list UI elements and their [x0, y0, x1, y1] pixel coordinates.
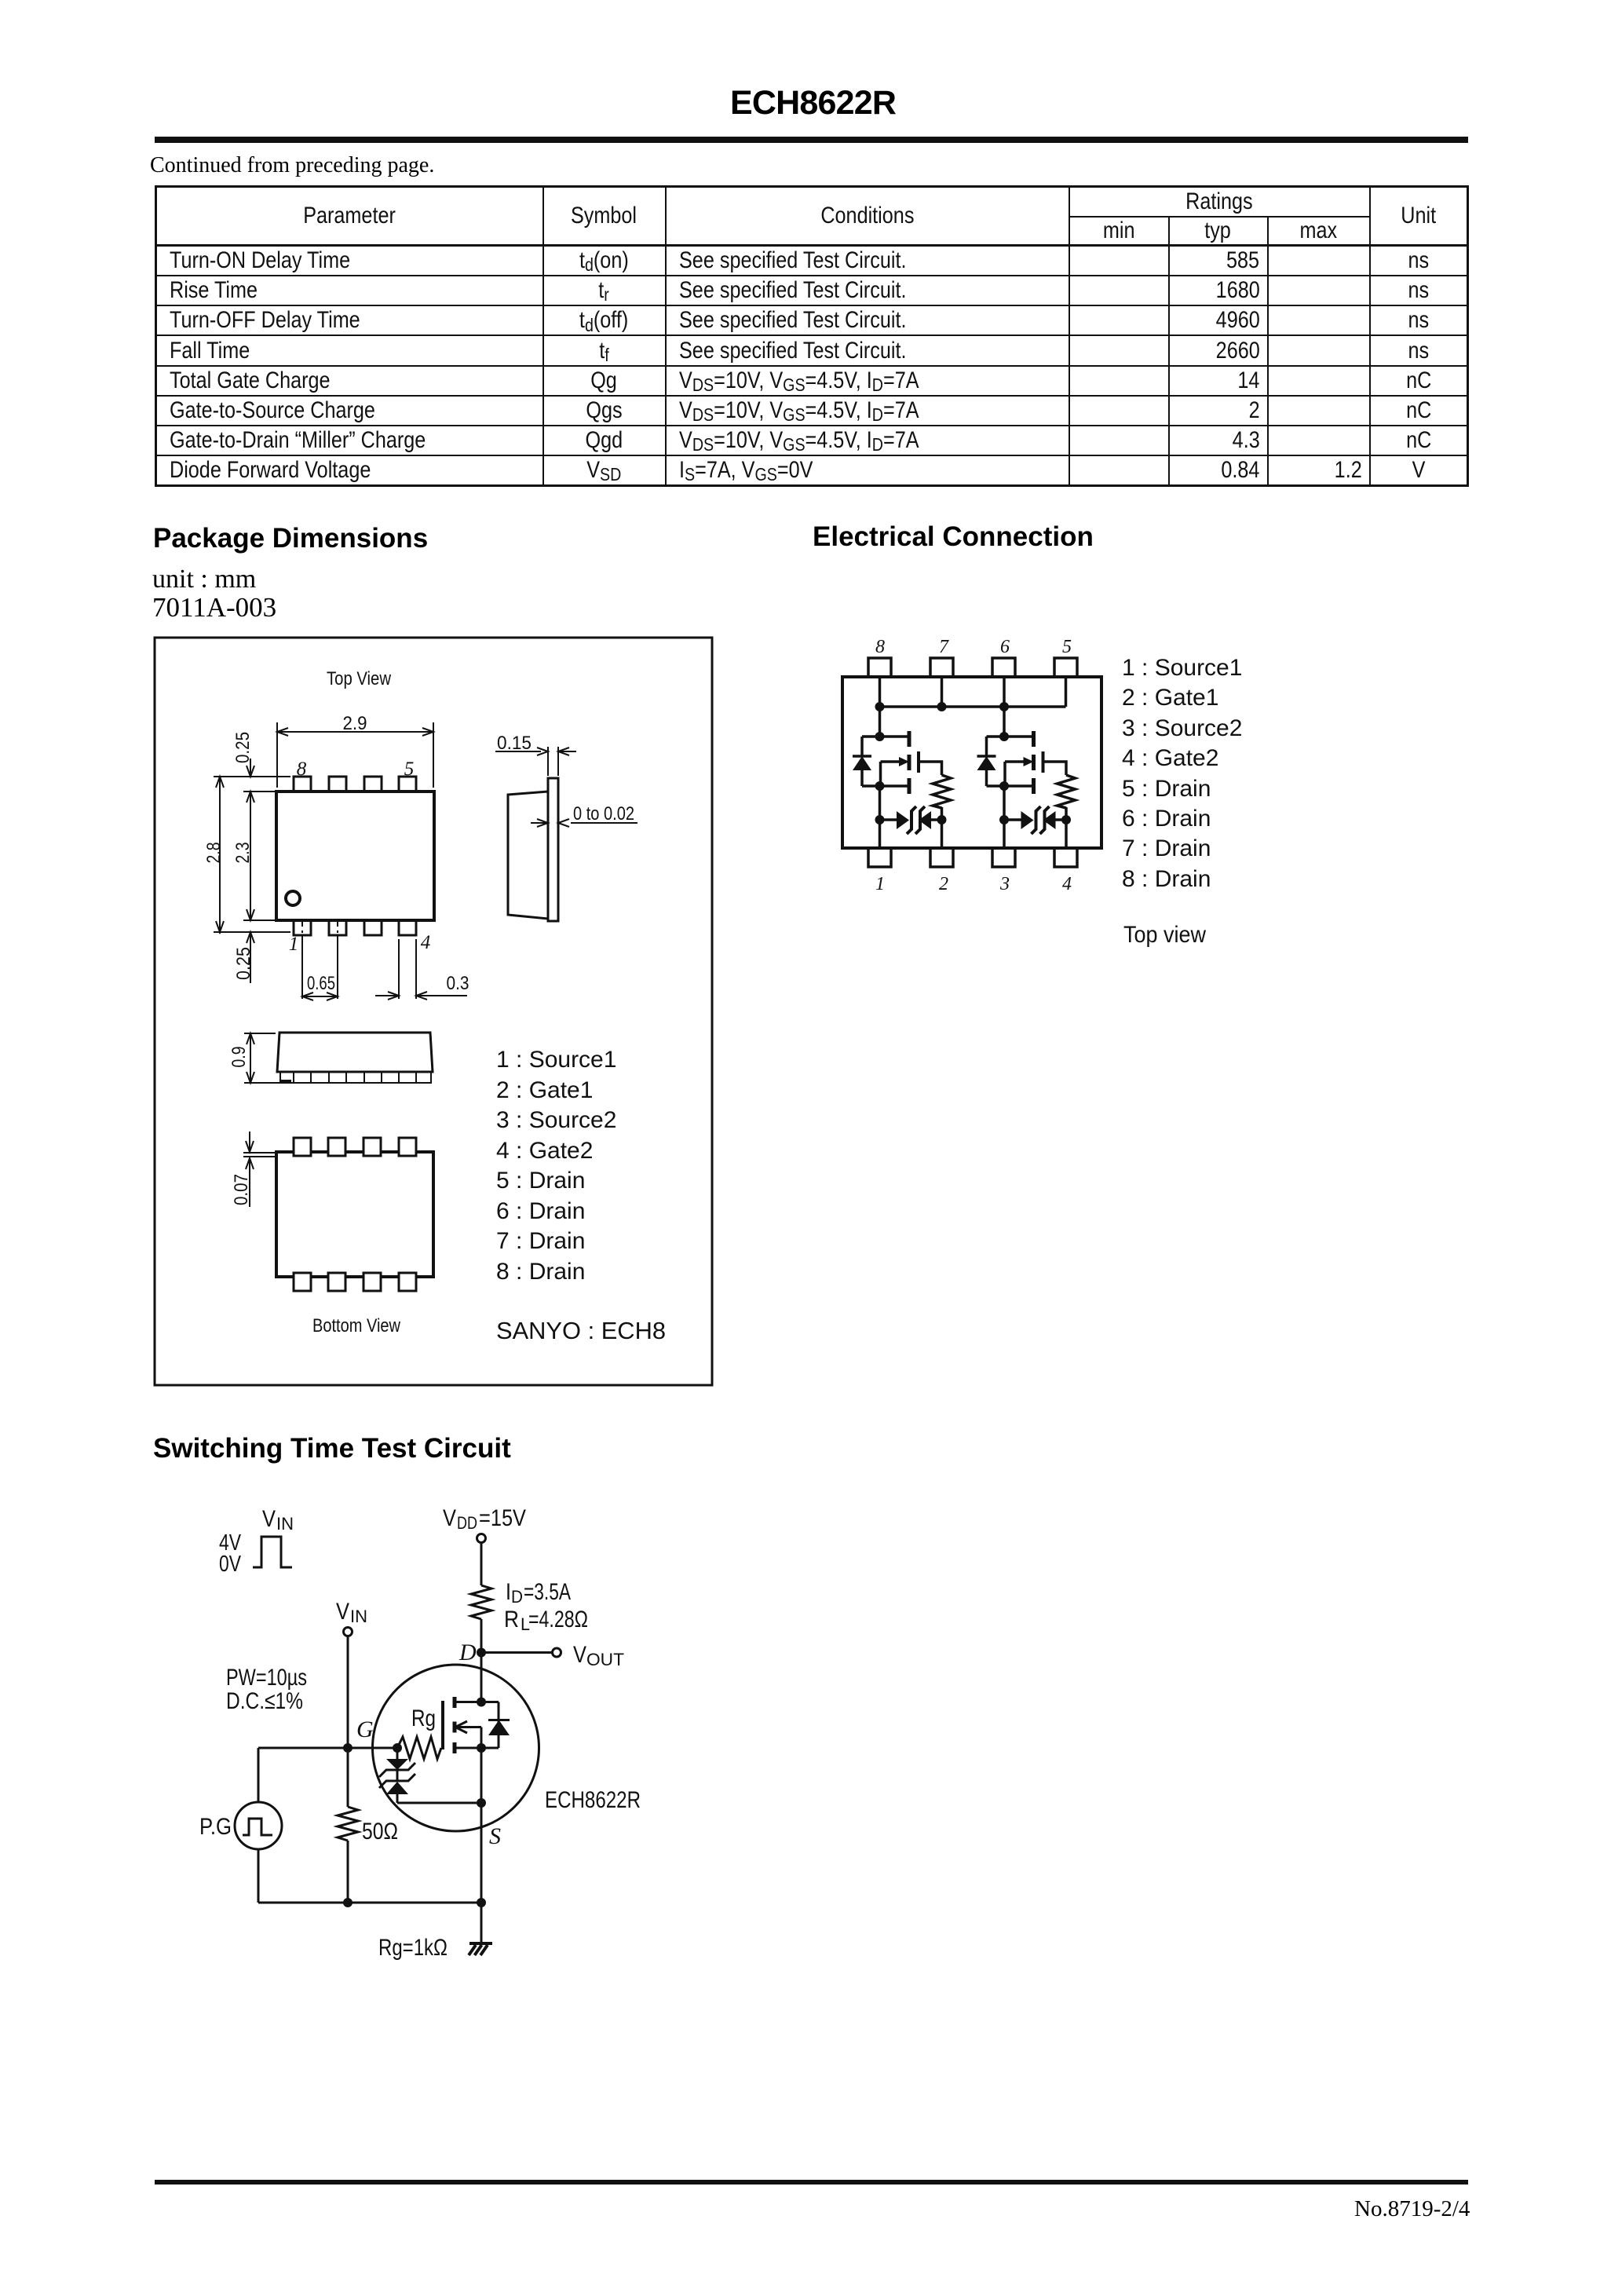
svg-text:5 : Drain: 5 : Drain [496, 1168, 585, 1194]
svg-text:8 : Drain: 8 : Drain [496, 1259, 585, 1285]
package body (top view) [276, 792, 434, 920]
svg-text:0V: 0V [219, 1552, 242, 1577]
junction Z1 right [937, 815, 947, 824]
svg-text:Top View: Top View [327, 668, 392, 689]
svg-text:0.3: 0.3 [447, 973, 469, 994]
wire P.G to gate [258, 1748, 260, 1802]
gate resistor R2 [1058, 775, 1076, 808]
pin 1 [868, 848, 891, 867]
transistor Q channel [453, 1697, 457, 1708]
junction Z1 left [875, 815, 885, 824]
pin 4 [1054, 848, 1077, 867]
pin 6 [992, 658, 1015, 677]
svg-text:Rg: Rg [411, 1706, 436, 1731]
junction Z2 right [1061, 815, 1071, 824]
svg-text:I: I [506, 1579, 511, 1605]
svg-text:6 : Drain: 6 : Drain [496, 1198, 585, 1224]
input pulse waveform [253, 1537, 292, 1567]
junction Q2 source [999, 781, 1009, 791]
wire Q2 gate [1043, 762, 1067, 775]
transistor Q1 gate plate [917, 751, 920, 773]
svg-text:5: 5 [404, 759, 415, 780]
svg-text:=3.5A: =3.5A [524, 1579, 571, 1605]
junction Q2 drain [999, 732, 1009, 741]
wire Q2 drain bar [987, 735, 1034, 738]
package dimensions frame [155, 638, 712, 1385]
junction drain node [477, 1648, 486, 1658]
svg-text:IN: IN [350, 1607, 367, 1626]
svg-text:6: 6 [1000, 637, 1010, 657]
continued note [150, 153, 434, 178]
svg-text:Rg=1kΩ: Rg=1kΩ [378, 1935, 448, 1961]
svg-text:2 : Gate1: 2 : Gate1 [1122, 685, 1218, 711]
wire VDD to RL [480, 1543, 483, 1585]
ground [469, 1942, 492, 1945]
svg-text:3 : Source2: 3 : Source2 [496, 1107, 616, 1133]
Q1 body arrow [881, 760, 903, 763]
wire pin5 stub [1065, 677, 1068, 707]
pin list (electrical connection) [1122, 655, 1242, 892]
svg-text:0.15: 0.15 [497, 733, 532, 754]
wire drain to VOUT [481, 1651, 553, 1654]
wire R2 to pin4 [1065, 807, 1068, 848]
wire Q2 source to pin3 [1003, 786, 1006, 848]
svg-text:Bottom View: Bottom View [312, 1315, 401, 1336]
spec table [155, 185, 1469, 487]
svg-text:ECH8622R: ECH8622R [545, 1787, 641, 1813]
body diode D1 [860, 737, 864, 756]
wire to ground [480, 1903, 483, 1943]
junction gate/zener [393, 1743, 402, 1753]
pin 6 pad (top view) [364, 777, 382, 792]
junction bus/50ohm [343, 1898, 353, 1907]
junction drain bus pin8 [875, 702, 885, 711]
svg-text:D: D [511, 1587, 523, 1607]
terminal VIN [344, 1628, 353, 1636]
svg-text:4 : Gate2: 4 : Gate2 [496, 1138, 593, 1164]
svg-text:4: 4 [421, 932, 431, 953]
pin 8 pad (top view) [294, 777, 311, 792]
svg-text:SANYO : ECH8: SANYO : ECH8 [496, 1317, 666, 1344]
svg-text:Top view: Top view [1123, 922, 1206, 948]
svg-text:1 : Source1: 1 : Source1 [1122, 655, 1242, 681]
wire internal source bar [455, 1747, 499, 1749]
svg-text:V: V [336, 1599, 349, 1625]
wire drain to Q2 [1003, 707, 1006, 737]
junction Q1 drain [875, 732, 885, 741]
pin 3 pad (top view) [364, 920, 382, 935]
transistor Q1 channel [908, 731, 911, 747]
section heading: Electrical Connection [813, 521, 1094, 553]
junction internal source [477, 1743, 486, 1753]
side view lead frame [548, 778, 558, 921]
svg-text:8: 8 [875, 637, 885, 657]
svg-text:0.65: 0.65 [307, 973, 335, 994]
svg-text:DD: DD [457, 1513, 477, 1533]
side elevation body [277, 1033, 433, 1072]
wire gate line [258, 1747, 400, 1749]
junction drain bus pin6 [999, 702, 1009, 711]
transistor Q2 gate plate [1042, 751, 1045, 773]
svg-text:2.9: 2.9 [343, 713, 367, 734]
svg-text:V: V [573, 1642, 586, 1668]
pin 1 pad (top view) [294, 920, 311, 935]
svg-text:1: 1 [875, 874, 885, 894]
junction Z2 left [999, 815, 1009, 824]
pin 2 [930, 848, 953, 867]
pin 1 index mark [286, 891, 300, 905]
svg-text:3: 3 [999, 874, 1010, 894]
svg-text:D: D [458, 1640, 477, 1665]
wire P.G to ground bus [258, 1849, 260, 1903]
junction source/zener [477, 1798, 486, 1808]
junction internal drain [477, 1698, 486, 1707]
wire Q1 source bar [862, 784, 909, 788]
gate protection zener Z1 [880, 818, 897, 821]
svg-text:50Ω: 50Ω [362, 1819, 398, 1844]
wire source down [480, 1748, 483, 1903]
internal gate resistor Rg [397, 1737, 441, 1759]
svg-text:PW=10µs: PW=10µs [226, 1665, 307, 1691]
terminal VOUT [553, 1648, 561, 1657]
svg-text:=15V: =15V [479, 1505, 526, 1531]
svg-text:3 : Source2: 3 : Source2 [1122, 715, 1242, 741]
svg-text:4: 4 [1062, 874, 1072, 894]
side view body [508, 792, 548, 919]
svg-text:G: G [356, 1717, 374, 1742]
svg-text:7 : Drain: 7 : Drain [496, 1228, 585, 1254]
section heading: Switching Time Test Circuit [153, 1433, 511, 1464]
wire pin8 stub [879, 677, 882, 707]
pin 5 pad (top view) [399, 777, 416, 792]
section heading: Package Dimensions [153, 523, 428, 554]
wire Q1 drain bar [862, 735, 909, 738]
wire zener to source [397, 1802, 481, 1804]
junction Q1 source [875, 781, 885, 791]
package code [152, 592, 276, 623]
svg-text:0.9: 0.9 [228, 1047, 250, 1068]
wire Q2 source bar [987, 784, 1034, 788]
package outline U1 [842, 677, 1101, 848]
svg-text:6 : Drain: 6 : Drain [1122, 806, 1211, 832]
pin 5 [1054, 658, 1077, 677]
Q body arrow [456, 1726, 481, 1728]
title rule [155, 137, 1468, 143]
internal body diode [498, 1702, 500, 1749]
svg-text:5: 5 [1062, 637, 1072, 657]
wire internal drain bar [455, 1701, 499, 1703]
svg-text:0.07: 0.07 [231, 1174, 252, 1205]
svg-text:OUT: OUT [586, 1650, 624, 1669]
svg-text:IN: IN [276, 1514, 294, 1534]
wire bottom bus [258, 1902, 481, 1904]
svg-text:V: V [262, 1506, 276, 1532]
svg-text:=4.28Ω: =4.28Ω [528, 1607, 588, 1632]
body diode D2 [985, 737, 988, 756]
svg-text:4 : Gate2: 4 : Gate2 [1122, 745, 1218, 771]
svg-text:2 : Gate1: 2 : Gate1 [496, 1077, 593, 1103]
svg-text:D.C.≤1%: D.C.≤1% [226, 1688, 303, 1714]
svg-text:5 : Drain: 5 : Drain [1122, 776, 1211, 802]
bottom view pads row top [294, 1138, 416, 1156]
svg-text:8: 8 [297, 759, 307, 780]
resistor 50 ohm [347, 1753, 349, 1807]
svg-text:1: 1 [289, 934, 299, 955]
wire drain bus [880, 705, 1066, 708]
pin 4 pad (top view) [399, 920, 416, 935]
transistor Q gate plate [441, 1701, 444, 1749]
pin 7 [930, 658, 953, 677]
side elevation lead strip [280, 1072, 431, 1083]
pin list (package box) [496, 1047, 616, 1285]
pin 3 [992, 848, 1015, 867]
svg-text:1 : Source1: 1 : Source1 [496, 1047, 616, 1073]
wire drain into device [480, 1653, 483, 1702]
wire Q1 source to pin1 [879, 786, 882, 848]
device enclosure circle ECH8622R [373, 1665, 539, 1831]
bottom view body [276, 1152, 433, 1277]
svg-text:2.8: 2.8 [203, 843, 225, 864]
svg-text:7 : Drain: 7 : Drain [1122, 835, 1211, 861]
wire pin7 stub [941, 677, 944, 707]
pin 7 pad (top view) [329, 777, 346, 792]
junction drain bus pin7 [937, 702, 947, 711]
footer rule [155, 2180, 1468, 2184]
wire Q1 gate [919, 762, 942, 775]
svg-text:8 : Drain: 8 : Drain [1122, 866, 1211, 892]
Q2 body arrow [1005, 760, 1027, 763]
svg-text:V: V [443, 1505, 456, 1531]
load resistor RL [471, 1585, 491, 1619]
junction bus/source [477, 1898, 486, 1907]
svg-text:0 to 0.02: 0 to 0.02 [573, 803, 634, 824]
wire pin6 stub [1003, 677, 1006, 707]
junction gate/VIN [343, 1743, 353, 1753]
gate protection zener stack [396, 1748, 399, 1759]
bottom view pads row bottom [294, 1273, 416, 1291]
wire RL to drain node [480, 1619, 483, 1652]
page title ECH8622R [730, 84, 896, 122]
unit note [152, 565, 256, 594]
pin 2 pad (top view) [329, 920, 346, 935]
transistor Q2 channel [1032, 731, 1036, 747]
svg-text:7: 7 [939, 637, 949, 657]
gate protection zener Z2 [1004, 818, 1021, 821]
wire VIN vertical [347, 1636, 349, 1748]
pin 8 [868, 658, 891, 677]
wire drain to Q1 [879, 707, 882, 737]
svg-text:2: 2 [939, 874, 948, 894]
gate resistor R1 [933, 775, 951, 808]
svg-text:P.G: P.G [199, 1814, 232, 1840]
svg-text:R: R [504, 1607, 519, 1632]
wire R1 to pin2 [941, 807, 944, 848]
footer page number [1354, 2196, 1470, 2222]
svg-text:S: S [489, 1823, 501, 1849]
terminal VDD [477, 1534, 486, 1543]
